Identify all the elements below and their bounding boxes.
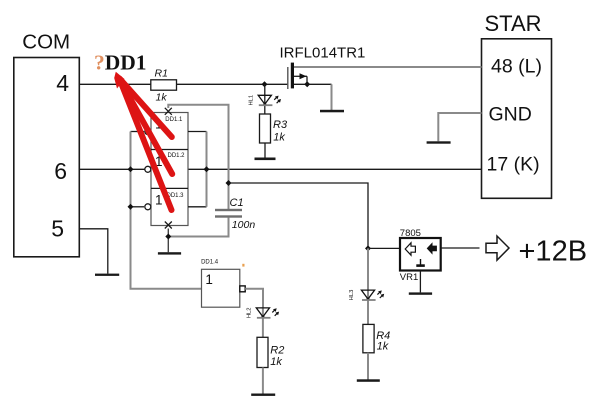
wire C1 bottom to ground wire	[168, 218, 228, 237]
node junction bus/pin6	[128, 166, 134, 172]
IC DD1 gate block	[151, 113, 188, 226]
svg-text:4: 4	[56, 70, 69, 96]
resistor R4	[363, 324, 390, 352]
svg-text:5: 5	[51, 216, 64, 242]
resistor R2	[257, 337, 284, 368]
wire left vertical bus	[131, 132, 202, 289]
svg-text:1k: 1k	[377, 341, 389, 353]
wire output bus vertical	[206, 132, 208, 207]
input bubble DD1.2	[145, 166, 151, 172]
node junction C1/ground stem	[165, 234, 171, 240]
annotation red arrow strokes	[120, 79, 173, 211]
svg-text:HL1: HL1	[249, 95, 255, 106]
svg-text:VR1: VR1	[400, 272, 418, 283]
wire HL2 to R2	[262, 307, 264, 338]
connector COM	[14, 30, 80, 256]
connector STAR	[482, 11, 552, 198]
ground (pin 5)	[95, 274, 119, 276]
svg-text:R3: R3	[273, 119, 288, 131]
regulator VR1 7805	[400, 228, 441, 283]
wire source down to ground	[331, 84, 333, 110]
wire junction down to HL3	[367, 248, 369, 290]
svg-text:DD1.4: DD1.4	[201, 259, 219, 265]
svg-text:1: 1	[205, 272, 213, 287]
svg-text:C1: C1	[230, 197, 244, 209]
svg-text:IRFL014TR1: IRFL014TR1	[280, 45, 366, 62]
svg-text:1k: 1k	[156, 92, 168, 104]
pin cross bottom of DD1	[165, 222, 172, 229]
ground (DD1/C1)	[158, 252, 181, 254]
wire top pin of DD1 to C1	[168, 105, 228, 209]
svg-text:HL2: HL2	[247, 307, 253, 318]
svg-text:GND: GND	[489, 103, 532, 125]
wire R1 to gate of Q1	[177, 83, 289, 85]
node junction source/arrow	[304, 81, 310, 87]
wire left bus to DD1.3 input	[131, 206, 145, 208]
wire junction down through HL1 to R3	[264, 84, 266, 114]
capacitor C1	[215, 197, 255, 231]
annotation red arrowhead	[114, 72, 124, 89]
node junction output bus/17K wire	[204, 166, 210, 172]
svg-text:48 (L): 48 (L)	[491, 56, 542, 78]
node junction pin4/HL1	[262, 81, 268, 87]
wire R4 to ground	[367, 353, 369, 380]
wire VR1 output to arrow	[441, 247, 480, 249]
wire bottom pin of DD1 to ground	[167, 229, 169, 253]
LED HL3	[349, 290, 384, 301]
arrow +12B supply symbol	[486, 236, 509, 260]
svg-text:R1: R1	[155, 68, 168, 80]
wire GND STAR	[438, 113, 481, 141]
gate DD1.4	[201, 259, 245, 307]
svg-text:1k: 1k	[270, 356, 282, 368]
ground (STAR GND)	[427, 141, 451, 143]
ground (R3)	[255, 158, 276, 161]
wire drain to 48(L)	[294, 66, 482, 68]
LED HL2	[247, 307, 279, 318]
orange mark near DD1.4	[242, 264, 244, 267]
svg-text:1k: 1k	[273, 132, 285, 144]
svg-text:HL3: HL3	[349, 290, 355, 301]
input bubble DD1.3	[145, 204, 151, 210]
svg-text:100n: 100n	[232, 219, 256, 231]
svg-text:?DD1: ?DD1	[94, 51, 147, 75]
wire left bus to DD1.1 input	[131, 131, 145, 133]
wire pin5 to ground	[79, 229, 108, 274]
svg-text:+12B: +12B	[519, 236, 588, 268]
annotation ?DD1	[94, 51, 147, 75]
ground (Q1 source)	[320, 110, 344, 113]
ground (VR1)	[409, 292, 432, 294]
wire DD1.1 output stub	[188, 131, 207, 133]
LED HL1	[249, 95, 281, 106]
ground (R4)	[357, 379, 380, 382]
transistor Q1 IRFL014TR1	[280, 45, 366, 90]
wire pin6 to DD1.2 input	[79, 168, 145, 170]
node junction VR1 input	[365, 245, 371, 251]
pin cross top of DD1	[165, 108, 172, 115]
svg-text:COM: COM	[22, 30, 70, 53]
wire DD1.2 output to 17(K)	[188, 168, 482, 170]
node junction C1 top/feedback	[226, 180, 232, 186]
wire R3 to ground	[264, 143, 266, 158]
wire DD1.3 output stub	[188, 206, 207, 208]
resistor R1	[151, 68, 177, 104]
wire HL3 to R4	[367, 290, 369, 324]
svg-text:1: 1	[155, 193, 163, 208]
wire VR1 to ground	[419, 271, 421, 293]
input bubble DD1.1	[145, 129, 151, 135]
wire source of Q1	[294, 83, 332, 85]
wire R2 to ground	[262, 368, 264, 394]
svg-text:6: 6	[54, 158, 67, 184]
ground (R2)	[251, 394, 275, 396]
wire feedback to VR1 column	[229, 183, 369, 248]
wire junction to VR1	[368, 247, 399, 249]
svg-text:DD1.2: DD1.2	[168, 153, 186, 159]
wire DD1.4 output to HL2	[245, 289, 263, 308]
wire pin4 to R1	[79, 83, 151, 85]
svg-text:DD1.1: DD1.1	[165, 117, 183, 123]
resistor R3	[260, 114, 288, 144]
node junction bus/DD1.3 input	[128, 204, 134, 210]
svg-text:R2: R2	[270, 345, 284, 357]
svg-text:STAR: STAR	[484, 11, 541, 36]
svg-text:17 (K): 17 (K)	[487, 154, 540, 176]
